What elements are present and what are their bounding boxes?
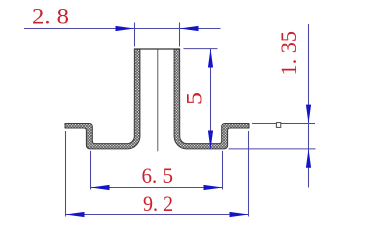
dim 6.5: extension line left (90, 151, 92, 190)
dim 5: extension line top (184, 48, 218, 50)
dim 9.2: extension line right (248, 131, 250, 217)
dim 5: top arrowhead (208, 49, 213, 68)
dim 1.35: dimension line (308, 24, 310, 149)
dim 2.8: extension line right (179, 23, 181, 47)
part: right half section (hatched, mirror) (174, 49, 249, 149)
dim 6.5: left arrowhead (91, 185, 110, 190)
dim 2.8: right arrowhead (180, 26, 199, 31)
svg-text:2. 8: 2. 8 (32, 4, 69, 29)
dim 2.8: left arrowhead (116, 26, 135, 31)
dim 1.35: bottom arrowhead (306, 149, 311, 168)
tube top edge line (134, 48, 180, 50)
dim 2.8: dimension line (24, 28, 221, 30)
part: left half section (hatched) (65, 49, 140, 149)
svg-text:6. 5: 6. 5 (142, 163, 174, 188)
dim 9.2: dimension line (66, 214, 249, 216)
dim 9.2: left arrowhead (66, 212, 85, 217)
dim 1.35: top arrowhead (306, 105, 311, 124)
dim 1.35: extension line bottom (229, 148, 316, 150)
dim 9.2: right arrowhead (230, 212, 249, 217)
dim 2.8: extension line left (134, 23, 136, 47)
dim 1.35: extension line top (252, 123, 315, 125)
dim 5: dimension line (210, 49, 212, 150)
svg-text:9. 2: 9. 2 (143, 191, 173, 216)
centerline (157, 50, 159, 152)
point marker square (276, 123, 280, 128)
dim 6.5: extension line right (222, 151, 224, 190)
dim 6.5: right arrowhead (204, 185, 223, 190)
svg-text:5: 5 (182, 92, 207, 105)
svg-text:1. 35: 1. 35 (276, 31, 301, 76)
dim 9.2: extension line left (65, 131, 67, 217)
dim 5: bottom arrowhead (208, 131, 213, 150)
dim 6.5: dimension line (91, 187, 223, 189)
